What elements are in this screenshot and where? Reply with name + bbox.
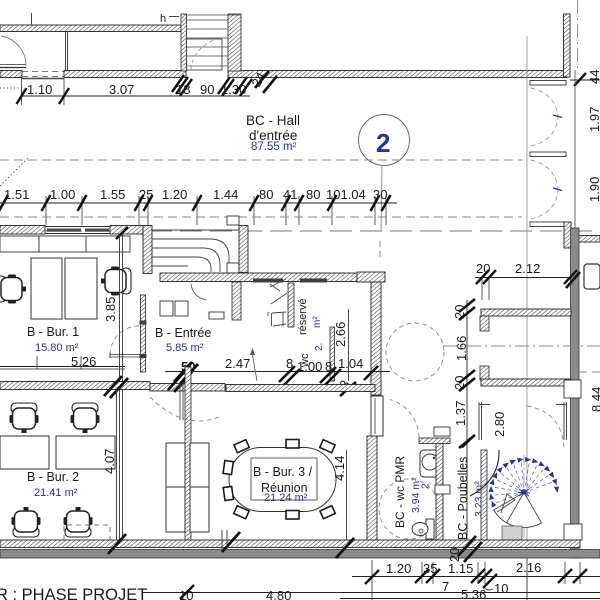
door jambs corridor y402 xyxy=(479,402,567,440)
SECTION-MIDDLE xyxy=(0,216,444,398)
door leaf bar top right 1 xyxy=(530,81,566,86)
wall wc/poubelles vertical hatched xyxy=(436,443,443,540)
desk bur1 right xyxy=(65,258,97,319)
svg-text:B - Bur. 3 /: B - Bur. 3 / xyxy=(253,465,313,479)
svg-text:20: 20 xyxy=(476,261,490,276)
chair bur2 bottom-left xyxy=(12,507,41,537)
SECTION-TOP xyxy=(0,13,600,231)
svg-text:3.85: 3.85 xyxy=(103,297,118,322)
svg-text:80: 80 xyxy=(259,187,273,202)
wall band y273 (hall lower wall) xyxy=(160,273,365,282)
svg-text:1.04: 1.04 xyxy=(338,356,363,371)
svg-text:1.00: 1.00 xyxy=(297,359,322,374)
svg-text:5.85 m²: 5.85 m² xyxy=(166,342,204,354)
ticks on vertical chain xyxy=(459,299,475,448)
bottom dimension row A line xyxy=(352,576,600,578)
vertical dimension chain x467 xyxy=(466,300,468,545)
svg-text:30: 30 xyxy=(373,187,387,202)
dimension row2 ticks xyxy=(0,195,391,211)
door swing arc into entree xyxy=(191,284,206,300)
PMR turning circle lower (dashed) xyxy=(379,479,439,539)
dimension row2 extension lines xyxy=(46,196,386,225)
heavy ticks entree wall xyxy=(168,370,192,392)
wall vestibule right jamb xyxy=(239,226,248,273)
wall post below band left xyxy=(480,316,489,331)
dimension chain line right x575 xyxy=(574,70,576,228)
svg-text:BC - Hall: BC - Hall xyxy=(246,113,300,128)
reserve cell ladder symbol (stair to cellar) xyxy=(268,279,287,326)
chair bur1 left xyxy=(0,275,26,304)
svg-text:réservé: réservé xyxy=(297,298,309,335)
wall main vertical x372 (hall/wc to corridor) xyxy=(371,282,381,395)
dimension row1 dotted leader left xyxy=(0,87,24,89)
svg-text:3.07: 3.07 xyxy=(109,82,134,97)
svg-text:90: 90 xyxy=(200,82,214,97)
wall bottom gray band xyxy=(0,550,600,559)
wall band y379 (stair room mid) xyxy=(481,379,571,386)
svg-text:3.94 m²: 3.94 m² xyxy=(410,477,422,513)
wall corner piece x357-385 y272 xyxy=(357,272,385,282)
door arc bur1 (dashed) xyxy=(110,326,140,354)
wall band B left piece xyxy=(0,71,22,78)
wall reserve right strip xyxy=(288,283,294,327)
dimension row y366 left: line xyxy=(0,366,125,368)
chair bur2 top-left xyxy=(10,403,39,433)
svg-text:2.66: 2.66 xyxy=(333,322,348,347)
SECTION-DIMROW2 xyxy=(0,158,600,257)
svg-text:35: 35 xyxy=(423,561,437,576)
svg-text:R : PHASE PROJET: R : PHASE PROJET xyxy=(0,586,147,600)
wall band B right piece xyxy=(228,71,567,78)
svg-text:1.66: 1.66 xyxy=(454,336,469,361)
svg-text:1.15: 1.15 xyxy=(448,561,473,576)
svg-text:BC - wc PMR: BC - wc PMR xyxy=(393,456,407,528)
tick on bur1 wall xyxy=(116,227,128,239)
extension lines row A xyxy=(372,558,580,600)
dark door bar 2 xyxy=(300,279,327,283)
white door box on gray wall y524 xyxy=(564,524,582,540)
svg-text:25: 25 xyxy=(139,187,153,202)
svg-text:41: 41 xyxy=(283,187,297,202)
cabinet column left of wall xyxy=(166,443,209,532)
white door box on gray wall y380 xyxy=(564,380,581,398)
wall band top of wc PMR xyxy=(419,438,450,444)
wall post y366 xyxy=(480,366,489,380)
leader arrow for 2.47 xyxy=(252,352,257,381)
heavy ticks along bottom wall xyxy=(108,532,482,562)
svg-text:2.80: 2.80 xyxy=(492,412,507,437)
wall bur1 top band left xyxy=(0,226,45,235)
copier right of wall xyxy=(584,264,600,289)
wall band B centre piece xyxy=(64,71,186,78)
wall bur1 right hatched xyxy=(141,295,146,372)
reception curved counter (nested quarter-turn lines) xyxy=(152,230,239,272)
grid line x527 xyxy=(526,36,528,600)
svg-text:2: 2 xyxy=(376,128,390,158)
svg-text:1.00: 1.00 xyxy=(50,187,75,202)
svg-text:4.14: 4.14 xyxy=(332,456,347,481)
svg-text:15.80 m²: 15.80 m² xyxy=(35,342,79,354)
door arc corridor (dashed big) xyxy=(150,397,221,421)
svg-text:5.26: 5.26 xyxy=(71,354,96,369)
bottom total line partial xyxy=(340,598,600,600)
door swing arc top-left xyxy=(1,36,26,66)
ticks mid dim row xyxy=(279,366,378,385)
SECTION-BOTTOM xyxy=(0,530,600,600)
double door swing V 2 (dashed) xyxy=(531,160,558,190)
stair arrow zigzag xyxy=(497,494,515,513)
wall bottom hatched thin band xyxy=(0,540,580,548)
gray wall right vertical xyxy=(571,228,580,558)
wall bur1 top band right xyxy=(110,226,143,235)
svg-text:1.30: 1.30 xyxy=(221,82,246,97)
reception small box top xyxy=(227,216,239,225)
svg-text:18: 18 xyxy=(176,82,190,97)
svg-text:7: 7 xyxy=(442,579,449,594)
SECTION-RIGHT xyxy=(419,0,600,600)
ticks row A xyxy=(365,569,587,588)
svg-text:1.37: 1.37 xyxy=(453,401,468,426)
grid line dash-dot x577 xyxy=(577,0,579,70)
svg-text:1.20: 1.20 xyxy=(162,187,187,202)
stair newel scribble xyxy=(522,491,526,495)
door swing arc stair room (dashed) xyxy=(527,406,564,448)
svg-text:21.24 m²: 21.24 m² xyxy=(264,492,308,504)
door panel wc PMR (vertical) xyxy=(371,396,383,436)
label box bur3 xyxy=(251,458,317,500)
svg-text:4.07: 4.07 xyxy=(102,449,117,474)
door leaf bar top right 3 xyxy=(530,222,566,227)
dimension row1 ticks xyxy=(17,73,587,104)
svg-text:80: 80 xyxy=(306,187,320,202)
door jamb blocks right wall xyxy=(434,427,450,436)
wall stub lines at x222 bottom xyxy=(221,530,223,549)
wall stair left jamb xyxy=(181,14,187,71)
wall entree/dégagement vertical hatched xyxy=(232,282,241,320)
wire dotted diagonal top-left xyxy=(0,158,28,186)
entree furniture top xyxy=(160,301,224,319)
wall band y236 right of gray wall xyxy=(578,236,600,243)
svg-text:1.51: 1.51 xyxy=(4,187,29,202)
svg-text:m²: m² xyxy=(312,316,323,328)
wall band y309 (stair room top) xyxy=(481,309,571,316)
wire dashed hall line y160 xyxy=(0,159,523,161)
wire leader from circle xyxy=(381,166,382,232)
svg-text:1.44: 1.44 xyxy=(213,187,238,202)
desk bur2 left xyxy=(0,436,49,469)
washbasin xyxy=(420,450,440,477)
svg-text:1.10: 1.10 xyxy=(27,82,52,97)
toilet xyxy=(412,519,434,539)
desk bur2 right xyxy=(56,436,115,469)
wire dashed line y217 xyxy=(0,216,522,218)
stairs treads xyxy=(187,15,242,66)
dimension line y371 middle xyxy=(165,371,390,373)
wall corner hatched right x565 y222 xyxy=(564,222,571,248)
svg-text:4.80: 4.80 xyxy=(266,588,291,600)
svg-text:1.90: 1.90 xyxy=(587,177,600,202)
wall entree vertical x185 going down xyxy=(185,367,191,547)
cabinet row under bur1 top wall xyxy=(0,236,130,252)
svg-text:8.44: 8.44 xyxy=(589,387,600,412)
stairs lower flight outline xyxy=(187,39,223,70)
heavy tick bottom of 2.12 xyxy=(566,272,580,288)
wall poubelles/stair thin hatched xyxy=(481,450,487,547)
window in bur1 top band xyxy=(45,227,110,234)
dash line y372 right xyxy=(579,371,600,373)
svg-text:B - Bur. 2: B - Bur. 2 xyxy=(27,470,79,484)
tick row B at 187 xyxy=(180,585,194,599)
dark door bar 1 xyxy=(253,279,283,283)
callout circle 2 xyxy=(359,115,410,166)
door threshold dashes in band B xyxy=(22,72,64,77)
dimension row1 extension lines xyxy=(22,77,65,105)
svg-text:B - Entrée: B - Entrée xyxy=(155,326,211,340)
wire bur3 right wall line xyxy=(346,450,348,547)
chair bur2 top-right xyxy=(71,403,100,433)
leader curve for 2.80 xyxy=(470,450,499,496)
svg-text:10: 10 xyxy=(494,581,508,596)
chair bur2 bottom-right xyxy=(64,507,93,537)
svg-text:2.12: 2.12 xyxy=(515,261,540,276)
desk bur1 left xyxy=(31,258,62,319)
wall top band A (corridor top wall) xyxy=(0,25,181,32)
svg-text:2.16: 2.16 xyxy=(516,560,541,575)
wall band bur row y381 left xyxy=(0,382,150,390)
wire long-dash line y231 xyxy=(0,230,600,232)
svg-text:BC - Poubelles: BC - Poubelles xyxy=(456,457,470,540)
svg-text:21.41 m²: 21.41 m² xyxy=(34,487,78,499)
spiral radial dashed lines (blue-gray) xyxy=(494,463,552,503)
door swing wc PMR upper (dashed) xyxy=(390,400,419,438)
dimension row1 line xyxy=(21,95,250,97)
PMR turning circle upper (dashed) xyxy=(386,323,444,381)
svg-text:1.97: 1.97 xyxy=(587,107,600,132)
spiral rim arrows (blue wedges) xyxy=(488,457,559,508)
dimension row2 line xyxy=(0,202,397,204)
spiral staircase xyxy=(488,455,559,540)
stair landing gray pad xyxy=(502,526,522,540)
wire wc right line xyxy=(348,309,350,381)
wall bur3/wc vertical hatched lower xyxy=(367,436,377,547)
bottom dimension row B line xyxy=(142,592,600,594)
double door swing V 1 (dashed) xyxy=(531,88,558,117)
SECTION-ROOMS xyxy=(0,234,487,547)
svg-text:101.04: 101.04 xyxy=(326,187,366,202)
wire dashed stub below node xyxy=(379,241,381,257)
meeting table (stadium) xyxy=(229,448,336,512)
wall bur1/bur2 partition lines xyxy=(119,234,121,542)
wall hall/vestibule left jamb xyxy=(143,226,152,274)
meeting chairs around table xyxy=(223,440,335,520)
door leaf bar top right 2 xyxy=(530,152,566,157)
svg-text:B - Bur. 1: B - Bur. 1 xyxy=(27,325,79,339)
svg-text:20: 20 xyxy=(447,548,462,562)
svg-text:h: h xyxy=(160,13,166,25)
spiral axis dash-dot xyxy=(523,455,525,538)
reception small box bottom xyxy=(227,263,239,273)
svg-text:2: 2 xyxy=(420,483,432,489)
wall wc right strip xyxy=(330,327,335,381)
wall bur2 right line xyxy=(116,389,118,542)
door leaf top-left xyxy=(0,67,26,69)
wall band bur row y384 entree-bur3 xyxy=(150,384,225,392)
svg-text:87.55 m²: 87.55 m² xyxy=(251,141,297,153)
svg-text:1.55: 1.55 xyxy=(100,187,125,202)
svg-text:10: 10 xyxy=(179,588,193,600)
door leaf bur1 xyxy=(110,354,140,356)
chair bur1 right xyxy=(101,267,131,296)
door threshold bottom line xyxy=(22,78,64,80)
wire room divider x65 xyxy=(65,31,67,71)
wall stair right jamb xyxy=(228,14,241,71)
svg-text:44: 44 xyxy=(587,70,600,84)
heavy ticks on band left xyxy=(104,376,128,398)
wall right vertical top xyxy=(564,14,571,77)
dashed niche bur2 xyxy=(64,525,110,540)
stair tread sector (white fan) xyxy=(494,493,542,528)
door jambs in x185 wall xyxy=(179,382,181,420)
wall stub marker above band xyxy=(31,13,33,25)
stairs walk line dashed xyxy=(191,39,216,70)
grid dash-dot horizontal y346 xyxy=(443,345,600,347)
svg-text:2.47: 2.47 xyxy=(225,356,250,371)
svg-text:1.20: 1.20 xyxy=(386,561,411,576)
svg-text:2.: 2. xyxy=(314,343,325,351)
